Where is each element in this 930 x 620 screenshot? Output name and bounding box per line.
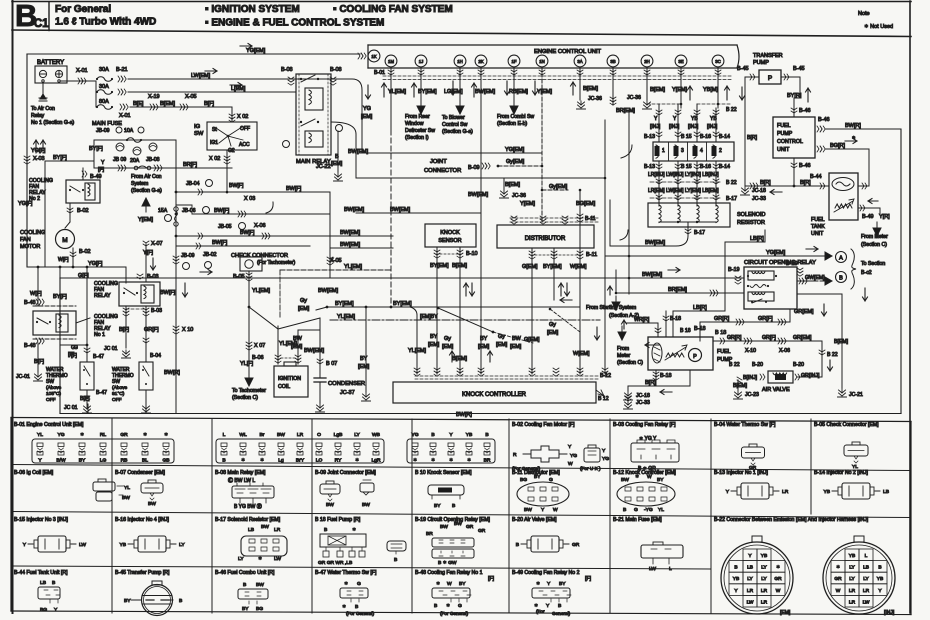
svg-text:X-01: X-01 bbox=[76, 68, 88, 74]
svg-text:RB[EM]: RB[EM] bbox=[509, 89, 528, 95]
svg-text:YB: YB bbox=[466, 432, 473, 438]
svg-text:✶: ✶ bbox=[436, 581, 440, 587]
svg-text:GB: GB bbox=[162, 458, 169, 464]
svg-text:B-10: B-10 bbox=[466, 251, 478, 257]
svg-text:YL: YL bbox=[37, 432, 43, 438]
svg-text:B-14: B-14 bbox=[719, 164, 730, 170]
svg-text:Y[F]: Y[F] bbox=[143, 250, 154, 256]
svg-text:B-48 Cooling Fan Relay No 1: B-48 Cooling Fan Relay No 1 bbox=[415, 570, 483, 576]
svg-text:From Combi Sw: From Combi Sw bbox=[497, 114, 534, 120]
svg-text:DISTRIBUTOR: DISTRIBUTOR bbox=[525, 236, 566, 242]
svg-text:-YG: -YG bbox=[644, 507, 653, 513]
svg-text:2: 2 bbox=[719, 148, 722, 154]
svg-text:G: G bbox=[458, 603, 462, 609]
svg-text:X-07: X-07 bbox=[151, 241, 163, 247]
svg-text:B-08 Main Relay [EM]: B-08 Main Relay [EM] bbox=[215, 470, 266, 476]
svg-text:BR: BR bbox=[426, 531, 433, 537]
svg-text:AIR VALVE: AIR VALVE bbox=[762, 387, 790, 393]
svg-text:JC-18: JC-18 bbox=[752, 188, 766, 194]
svg-text:OFF: OFF bbox=[112, 397, 122, 403]
svg-text:A: A bbox=[839, 256, 843, 262]
svg-text:B[F]: B[F] bbox=[80, 396, 90, 402]
svg-text:1J: 1J bbox=[419, 59, 424, 64]
svg-text:B[EM]: B[EM] bbox=[505, 182, 520, 188]
svg-text:LR: LR bbox=[761, 599, 768, 605]
svg-text:B 22: B 22 bbox=[726, 107, 737, 113]
svg-text:UNIT: UNIT bbox=[811, 231, 824, 237]
svg-text:B-c2: B-c2 bbox=[861, 270, 872, 276]
svg-text:B-46 Fuel Combo Unit [R]: B-46 Fuel Combo Unit [R] bbox=[215, 570, 275, 576]
svg-text:BR[EM]: BR[EM] bbox=[668, 287, 687, 293]
svg-text:✶: ✶ bbox=[344, 581, 348, 587]
svg-text:[EM]: [EM] bbox=[442, 344, 454, 350]
svg-text:[INJ]: [INJ] bbox=[669, 124, 680, 130]
svg-text:BG: BG bbox=[520, 477, 527, 483]
svg-text:BW: BW bbox=[148, 501, 156, 507]
svg-text:B-16: B-16 bbox=[700, 134, 711, 140]
svg-text:[INJ]: [INJ] bbox=[707, 124, 718, 130]
svg-text:LW: LW bbox=[747, 599, 754, 605]
svg-text:W: W bbox=[553, 507, 558, 513]
svg-text:BW[EM]: BW[EM] bbox=[642, 272, 663, 278]
svg-text:WB: WB bbox=[372, 432, 380, 438]
svg-text:LgB: LgB bbox=[334, 432, 343, 438]
svg-text:B-05: B-05 bbox=[233, 274, 245, 280]
svg-text:15A: 15A bbox=[158, 208, 168, 214]
svg-text:JC-36: JC-36 bbox=[512, 193, 526, 199]
svg-text:BW[EM]: BW[EM] bbox=[390, 207, 411, 213]
svg-text:GR: GR bbox=[478, 528, 486, 534]
svg-text:3E: 3E bbox=[678, 59, 683, 64]
svg-text:BW[F]: BW[F] bbox=[214, 208, 230, 214]
svg-text:✶: ✶ bbox=[836, 565, 840, 571]
svg-text:1.6 ℓ Turbo With 4WD: 1.6 ℓ Turbo With 4WD bbox=[55, 17, 156, 28]
svg-text:B: B bbox=[839, 276, 843, 282]
svg-text:B: B bbox=[878, 565, 881, 571]
svg-text:(Section G-a): (Section G-a) bbox=[131, 188, 162, 194]
svg-text:B[EM]: B[EM] bbox=[452, 263, 467, 269]
svg-text:GR: GR bbox=[466, 524, 474, 530]
svg-text:YG[F]: YG[F] bbox=[31, 148, 46, 154]
svg-text:YG: YG bbox=[570, 453, 577, 459]
svg-text:LR: LR bbox=[274, 527, 281, 533]
svg-text:105°C): 105°C) bbox=[46, 391, 61, 397]
svg-text:(Section I): (Section I) bbox=[405, 135, 429, 141]
svg-text:FUEL: FUEL bbox=[717, 349, 731, 355]
svg-text:JC-18: JC-18 bbox=[636, 393, 650, 399]
svg-text:B-08: B-08 bbox=[330, 67, 342, 73]
svg-text:1F: 1F bbox=[511, 59, 516, 64]
svg-text:B-20: B-20 bbox=[752, 362, 763, 368]
svg-text:SENSOR: SENSOR bbox=[438, 238, 461, 244]
svg-text:System: System bbox=[131, 181, 148, 187]
svg-text:3A: 3A bbox=[577, 59, 582, 64]
svg-text:B 18 Fuel Pump [R]: B 18 Fuel Pump [R] bbox=[315, 517, 361, 523]
svg-text:L[EM]: L[EM] bbox=[231, 86, 246, 92]
svg-text:(For: (For bbox=[536, 609, 545, 614]
svg-text:G: G bbox=[357, 581, 361, 587]
svg-text:W[EM]: W[EM] bbox=[573, 351, 590, 357]
svg-text:80A: 80A bbox=[99, 99, 109, 105]
svg-text:W: W bbox=[776, 588, 781, 594]
svg-text:X 03: X 03 bbox=[244, 196, 255, 202]
svg-text:BY[F]: BY[F] bbox=[53, 155, 67, 161]
svg-text:YL[F]: YL[F] bbox=[240, 361, 254, 367]
svg-text:B-20: B-20 bbox=[793, 362, 804, 368]
svg-text:YL[EM]: YL[EM] bbox=[337, 314, 356, 320]
svg-text:B[R]: B[R] bbox=[760, 180, 771, 186]
svg-text:B-46: B-46 bbox=[818, 117, 830, 123]
svg-text:✶: ✶ bbox=[342, 604, 346, 610]
svg-text:ENGINE CONTROL UNIT: ENGINE CONTROL UNIT bbox=[534, 49, 602, 55]
svg-text:LY: LY bbox=[849, 576, 855, 582]
svg-text:LW: LW bbox=[649, 566, 656, 572]
svg-text:B[EM]: B[EM] bbox=[733, 383, 748, 389]
svg-text:Meter: Meter bbox=[617, 353, 631, 359]
svg-text:Br: Br bbox=[260, 432, 265, 438]
svg-text:W[EM]: W[EM] bbox=[570, 264, 587, 270]
svg-text:B: B bbox=[452, 503, 455, 509]
svg-text:BY: BY bbox=[434, 503, 441, 509]
svg-text:W: W bbox=[568, 461, 573, 467]
svg-text:B-45: B-45 bbox=[737, 66, 749, 72]
svg-text:LY: LY bbox=[761, 565, 767, 571]
svg-text:JC-37: JC-37 bbox=[340, 390, 355, 396]
svg-text:JC-21: JC-21 bbox=[849, 392, 863, 398]
svg-text:✶: ✶ bbox=[241, 458, 245, 464]
svg-text:B-22 Connector Between Emissio: B-22 Connector Between Emission [EM] And… bbox=[714, 517, 869, 523]
svg-text:BW[EM]: BW[EM] bbox=[475, 89, 496, 95]
svg-text:JC-36: JC-36 bbox=[588, 96, 602, 102]
svg-text:(Section G-a): (Section G-a) bbox=[442, 129, 473, 135]
svg-text:LY: LY bbox=[354, 432, 360, 438]
svg-text:G[EM]: G[EM] bbox=[524, 337, 540, 343]
svg-text:BW: BW bbox=[454, 521, 462, 527]
svg-text:SOLENOID: SOLENOID bbox=[737, 212, 765, 218]
svg-text:✶: ✶ bbox=[258, 556, 262, 562]
svg-text:YB[M]: YB[M] bbox=[703, 87, 718, 93]
svg-text:BW[EM]: BW[EM] bbox=[344, 207, 365, 213]
svg-text:BY[EM]: BY[EM] bbox=[418, 89, 437, 95]
svg-text:YB: YB bbox=[691, 116, 698, 122]
svg-text:Y[R]: Y[R] bbox=[879, 214, 890, 220]
svg-text:X-06: X-06 bbox=[779, 348, 790, 354]
svg-text:[EM]: [EM] bbox=[547, 330, 559, 336]
svg-text:To Blower: To Blower bbox=[442, 115, 465, 121]
svg-text:B 18: B 18 bbox=[715, 330, 726, 336]
svg-text:BW[EM]: BW[EM] bbox=[304, 348, 325, 354]
svg-text:IG: IG bbox=[194, 124, 201, 130]
svg-text:GR[R]: GR[R] bbox=[714, 316, 730, 322]
svg-text:B: B bbox=[516, 542, 519, 548]
svg-text:OFF: OFF bbox=[46, 397, 56, 403]
svg-text:B 18: B 18 bbox=[680, 328, 691, 334]
svg-text:B 12: B 12 bbox=[598, 396, 609, 402]
svg-text:B 22: B 22 bbox=[726, 180, 737, 186]
svg-text:(For U K ): (For U K ) bbox=[580, 466, 601, 471]
svg-text:W[F]: W[F] bbox=[30, 291, 42, 297]
svg-text:No 1 (Section G-a): No 1 (Section G-a) bbox=[31, 120, 75, 126]
svg-text:BW: BW bbox=[277, 432, 285, 438]
svg-text:B[F]: B[F] bbox=[119, 327, 130, 333]
svg-text:B-11: B-11 bbox=[585, 216, 596, 222]
svg-text:B-01 Engine Control Unit [EM]: B-01 Engine Control Unit [EM] bbox=[14, 422, 84, 428]
svg-text:WR[R]: WR[R] bbox=[634, 317, 650, 323]
svg-text:B-49: B-49 bbox=[90, 174, 102, 180]
svg-text:B-09: B-09 bbox=[468, 165, 480, 171]
svg-text:BATTERY: BATTERY bbox=[37, 60, 64, 66]
svg-text:G: G bbox=[634, 507, 638, 513]
svg-text:YB: YB bbox=[823, 489, 830, 495]
svg-text:[EM]: [EM] bbox=[510, 344, 522, 350]
svg-text:✶ YG Y: ✶ YG Y bbox=[639, 436, 657, 442]
svg-text:(For General): (For General) bbox=[346, 611, 375, 616]
svg-text:B-18: B-18 bbox=[660, 373, 672, 379]
svg-text:B 22: B 22 bbox=[827, 352, 838, 358]
svg-text:4: 4 bbox=[700, 148, 703, 154]
svg-text:B-44 Fuel Tank Unit [R]: B-44 Fuel Tank Unit [R] bbox=[14, 570, 68, 576]
svg-text:1: 1 bbox=[662, 148, 665, 154]
svg-text:BG: BG bbox=[256, 606, 263, 612]
svg-text:JB-02: JB-02 bbox=[203, 252, 217, 258]
svg-text:X-06: X-06 bbox=[254, 223, 266, 229]
svg-text:BY[F]: BY[F] bbox=[89, 146, 103, 152]
svg-text:L: L bbox=[865, 553, 868, 559]
svg-text:(Section E-b): (Section E-b) bbox=[497, 121, 528, 127]
svg-text:GR: GR bbox=[572, 542, 580, 548]
svg-text:BY: BY bbox=[657, 477, 664, 483]
svg-text:Y[EM]: Y[EM] bbox=[138, 217, 153, 223]
svg-text:GR[F]: GR[F] bbox=[144, 327, 159, 333]
svg-text:BW[EM]: BW[EM] bbox=[348, 149, 369, 155]
svg-text:GR[EM]: GR[EM] bbox=[794, 309, 814, 315]
svg-text:LW[EM]: LW[EM] bbox=[191, 73, 211, 79]
svg-text:B ✶ GW: B ✶ GW bbox=[438, 560, 457, 566]
svg-text:B-06: B-06 bbox=[252, 355, 264, 361]
svg-text:LW: LW bbox=[274, 556, 281, 562]
svg-text:1H: 1H bbox=[457, 59, 463, 64]
svg-text:B-44: B-44 bbox=[810, 174, 822, 180]
svg-text:B-15 Injector No 3 [INJ]: B-15 Injector No 3 [INJ] bbox=[14, 517, 68, 523]
svg-text:BrY: BrY bbox=[296, 458, 305, 464]
svg-text:GR[EM]: GR[EM] bbox=[793, 335, 812, 341]
svg-text:JB-04: JB-04 bbox=[186, 181, 200, 187]
svg-text:Y[EM]: Y[EM] bbox=[520, 201, 535, 207]
svg-text:YL[EM]: YL[EM] bbox=[252, 288, 271, 294]
svg-text:BW: BW bbox=[261, 524, 269, 530]
svg-text:(Section C): (Section C) bbox=[617, 360, 643, 366]
svg-text:KNOCK: KNOCK bbox=[440, 230, 460, 236]
svg-text:RELAY: RELAY bbox=[94, 293, 111, 299]
svg-text:FAN: FAN bbox=[20, 237, 31, 243]
svg-text:BY: BY bbox=[480, 336, 488, 342]
svg-text:B ✶ GR: B ✶ GR bbox=[638, 466, 656, 472]
svg-text:BR[EM]: BR[EM] bbox=[616, 108, 635, 114]
svg-text:LW: LW bbox=[79, 542, 86, 548]
svg-text:RESISTOR: RESISTOR bbox=[737, 220, 765, 226]
svg-text:LY: LY bbox=[761, 576, 767, 582]
svg-text:LB: LB bbox=[747, 565, 753, 571]
svg-text:B: B bbox=[52, 580, 55, 586]
svg-text:BW: BW bbox=[256, 582, 264, 588]
svg-text:CIRCUIT OPENING RELAY: CIRCUIT OPENING RELAY bbox=[744, 260, 816, 266]
svg-text:BW[F]: BW[F] bbox=[286, 186, 302, 192]
svg-text:B-19 Circuit Opening Relay [EM: B-19 Circuit Opening Relay [EM] bbox=[415, 517, 491, 523]
svg-text:B[F]: B[F] bbox=[34, 359, 45, 365]
svg-text:BY: BY bbox=[242, 606, 249, 612]
svg-text:Control Sw: Control Sw bbox=[442, 122, 468, 128]
svg-text:YB: YB bbox=[761, 553, 767, 559]
svg-text:B-18: B-18 bbox=[670, 316, 681, 322]
svg-text:X 07: X 07 bbox=[254, 343, 265, 349]
svg-text:YG[F]: YG[F] bbox=[88, 261, 103, 267]
svg-text:JC-33: JC-33 bbox=[636, 400, 650, 406]
svg-text:B-46: B-46 bbox=[799, 108, 811, 114]
svg-text:BW[R]: BW[R] bbox=[164, 370, 180, 376]
svg-text:BY: BY bbox=[430, 334, 438, 340]
svg-text:SW: SW bbox=[112, 379, 120, 385]
svg-text:X-03: X-03 bbox=[33, 156, 45, 162]
svg-text:YL[EM]: YL[EM] bbox=[344, 264, 363, 270]
svg-text:30A: 30A bbox=[99, 67, 109, 73]
svg-text:Lg: Lg bbox=[278, 458, 284, 464]
svg-text:BY: BY bbox=[459, 581, 466, 587]
svg-text:B-14 Injector No 2 [INJ]: B-14 Injector No 2 [INJ] bbox=[814, 470, 868, 476]
svg-text:B 15: B 15 bbox=[681, 134, 692, 140]
svg-text:JOINT: JOINT bbox=[430, 159, 447, 165]
svg-text:✶: ✶ bbox=[467, 458, 471, 464]
svg-text:COIL: COIL bbox=[278, 384, 290, 390]
svg-text:MAIN FUSE: MAIN FUSE bbox=[92, 121, 122, 127]
svg-text:[F]: [F] bbox=[585, 576, 592, 582]
svg-text:B-48: B-48 bbox=[24, 343, 36, 349]
svg-text:(Above: (Above bbox=[46, 385, 62, 391]
svg-text:CONTROL: CONTROL bbox=[777, 139, 803, 145]
svg-text:GW[EM]: GW[EM] bbox=[805, 275, 825, 281]
svg-text:✶: ✶ bbox=[446, 603, 450, 609]
svg-text:✶: ✶ bbox=[164, 432, 168, 438]
svg-text:B-48: B-48 bbox=[24, 300, 36, 306]
svg-text:YG: YG bbox=[57, 432, 64, 438]
svg-text:LY: LY bbox=[238, 556, 244, 562]
svg-text:3C: 3C bbox=[715, 59, 721, 64]
svg-text:General): General) bbox=[552, 611, 571, 616]
svg-text:GR[R]: GR[R] bbox=[727, 335, 742, 341]
svg-text:Gy[EM]: Gy[EM] bbox=[506, 159, 525, 165]
svg-text:P: P bbox=[693, 354, 697, 360]
svg-text:B-13 Injector No 1 [INJ]: B-13 Injector No 1 [INJ] bbox=[714, 470, 768, 476]
svg-text:YB: YB bbox=[119, 542, 126, 548]
svg-text:BY[EM]: BY[EM] bbox=[543, 264, 562, 270]
svg-text:For General: For General bbox=[55, 4, 111, 15]
svg-text:10A: 10A bbox=[124, 128, 134, 134]
svg-text:B: B bbox=[431, 432, 434, 438]
svg-text:BG: BG bbox=[40, 607, 47, 613]
svg-text:KNOCK CONTROLLER: KNOCK CONTROLLER bbox=[462, 392, 527, 398]
svg-text:JC-33: JC-33 bbox=[752, 196, 766, 202]
svg-text:G: G bbox=[74, 345, 78, 351]
svg-text:BW[R]: BW[R] bbox=[845, 123, 861, 129]
svg-text:JC-01: JC-01 bbox=[16, 374, 30, 380]
svg-text:JB-06: JB-06 bbox=[182, 208, 196, 214]
svg-text:BR: BR bbox=[484, 458, 491, 464]
svg-text:B-19: B-19 bbox=[786, 261, 798, 267]
svg-text:TRANSFER: TRANSFER bbox=[753, 53, 783, 59]
svg-text:LY: LY bbox=[747, 576, 753, 582]
svg-text:To Section: To Section bbox=[861, 261, 885, 267]
svg-text:LR: LR bbox=[761, 588, 768, 594]
svg-text:B-47 Water Thermo Sw [F]: B-47 Water Thermo Sw [F] bbox=[315, 570, 377, 576]
svg-text:R: R bbox=[513, 452, 517, 458]
svg-text:B-45 Transfer Pump [R]: B-45 Transfer Pump [R] bbox=[115, 570, 170, 576]
svg-text:✶: ✶ bbox=[80, 432, 84, 438]
svg-text:B-12: B-12 bbox=[600, 373, 611, 379]
svg-text:Gy[EM]: Gy[EM] bbox=[549, 184, 568, 190]
svg-text:B[EM]: B[EM] bbox=[160, 101, 175, 107]
svg-text:PUMP: PUMP bbox=[777, 131, 793, 137]
svg-text:GR: GR bbox=[120, 432, 128, 438]
svg-text:YG[F]: YG[F] bbox=[18, 201, 33, 207]
svg-text:BW[F]: BW[F] bbox=[212, 240, 228, 246]
svg-text:✶ Not Used: ✶ Not Used bbox=[864, 23, 893, 30]
svg-text:B[EM]: B[EM] bbox=[650, 87, 665, 93]
svg-text:X-01: X-01 bbox=[119, 113, 131, 119]
svg-text:LR: LR bbox=[849, 588, 856, 594]
svg-text:X 02: X 02 bbox=[209, 156, 220, 162]
svg-text:P: P bbox=[768, 75, 772, 82]
svg-text:✶: ✶ bbox=[449, 458, 453, 464]
svg-text:1N: 1N bbox=[539, 59, 545, 64]
svg-text:Gy: Gy bbox=[549, 322, 556, 328]
svg-text:BY: BY bbox=[534, 474, 541, 480]
svg-text:B-13: B-13 bbox=[644, 164, 655, 170]
svg-text:RY: RY bbox=[335, 458, 342, 464]
svg-text:▪ COOLING FAN SYSTEM: ▪ COOLING FAN SYSTEM bbox=[333, 4, 453, 15]
svg-text:UNIT: UNIT bbox=[777, 147, 790, 153]
svg-text:LR: LR bbox=[863, 588, 870, 594]
svg-text:B: B bbox=[355, 604, 358, 610]
svg-text:LB[R]: LB[R] bbox=[750, 236, 764, 242]
svg-text:B-04 Water Thermo Sw [F]: B-04 Water Thermo Sw [F] bbox=[714, 422, 776, 428]
svg-text:[F]: [F] bbox=[71, 353, 77, 359]
svg-text:B-04: B-04 bbox=[150, 353, 161, 359]
svg-text:B-13: B-13 bbox=[644, 134, 655, 140]
svg-text:BW: BW bbox=[362, 502, 370, 508]
svg-text:YL: YL bbox=[852, 464, 858, 470]
svg-text:B-19: B-19 bbox=[728, 267, 740, 273]
svg-text:LB: LB bbox=[883, 489, 889, 495]
svg-text:ACC: ACC bbox=[239, 142, 250, 148]
svg-text:YG: YG bbox=[363, 106, 371, 112]
svg-text:B 10 Knock Sensor [EM]: B 10 Knock Sensor [EM] bbox=[415, 470, 472, 476]
svg-text:BR[F]: BR[F] bbox=[183, 162, 198, 168]
svg-text:FUEL: FUEL bbox=[777, 123, 791, 129]
svg-text:B: B bbox=[434, 603, 437, 609]
svg-text:WL: WL bbox=[239, 432, 247, 438]
svg-text:LR: LR bbox=[747, 588, 754, 594]
svg-text:LB: LB bbox=[40, 580, 46, 586]
svg-text:BW[EM]: BW[EM] bbox=[318, 288, 339, 294]
svg-text:3B: 3B bbox=[610, 59, 615, 64]
svg-text:B-03 Cooling Fan Relay [F]: B-03 Cooling Fan Relay [F] bbox=[613, 422, 676, 428]
svg-text:[EM]: [EM] bbox=[358, 364, 370, 370]
svg-text:B-17: B-17 bbox=[726, 196, 737, 202]
svg-text:B: B bbox=[222, 458, 225, 464]
svg-text:JB-05: JB-05 bbox=[218, 224, 232, 230]
svg-text:YG: YG bbox=[411, 432, 418, 438]
svg-text:B-16 Injector No 4 [INJ]: B-16 Injector No 4 [INJ] bbox=[115, 517, 169, 523]
svg-text:B[F]: B[F] bbox=[204, 101, 215, 107]
